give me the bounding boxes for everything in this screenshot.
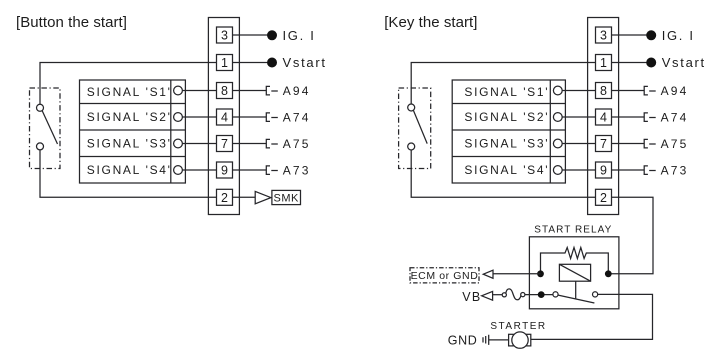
signal block row dividers (right) [452, 104, 565, 157]
wire pin 1 to Vstart node (left) [233, 62, 268, 64]
connector stub A74 (left) [266, 113, 278, 122]
svg-text:SMK: SMK [274, 193, 300, 205]
switch SW1 top terminal (left) [37, 104, 44, 111]
wire pin 9 to A73 (right) [612, 169, 645, 171]
svg-text:[Button the start]: [Button the start] [16, 14, 127, 31]
signal S3 output terminal (left) [174, 139, 183, 148]
svg-text:SIGNAL 'S2': SIGNAL 'S2' [87, 110, 172, 124]
svg-text:[Key the start]: [Key the start] [384, 14, 477, 31]
signal block row dividers (left) [80, 104, 186, 157]
node Vstart (right) [646, 58, 656, 68]
svg-text:1: 1 [221, 56, 228, 70]
connector stub A73 (left) [266, 166, 278, 175]
svg-text:4: 4 [600, 111, 607, 125]
svg-text:3: 3 [600, 29, 607, 43]
relay junction dot right [605, 270, 612, 277]
relay coil box [559, 264, 590, 281]
connector stub A94 (right) [644, 86, 656, 95]
start relay box [529, 237, 619, 309]
svg-text:IG. I: IG. I [662, 28, 695, 43]
switch SW2 blade (right, open) [413, 110, 427, 143]
wire pin1 row to switch top (right) [411, 63, 595, 105]
wire pin 2 to SMK buffer (left) [233, 196, 256, 198]
wire starter to ground [489, 339, 509, 341]
svg-text:A94: A94 [661, 84, 689, 98]
svg-text:9: 9 [221, 164, 228, 178]
wire VB arrow to fuse [493, 294, 503, 296]
pin 2 box (left) [217, 189, 233, 205]
relay switch right contact [593, 292, 598, 297]
svg-text:9: 9 [600, 164, 607, 178]
pin 2 box (right) [596, 189, 612, 205]
svg-text:A74: A74 [661, 110, 689, 124]
wire fuse to relay switch [525, 294, 553, 296]
wire pin 7 to A75 (left) [233, 143, 267, 145]
signal S2 output terminal (right) [553, 113, 562, 122]
wire pin1 row to switch top (left) [40, 63, 217, 105]
signal S4 output terminal (right) [553, 166, 562, 175]
signal block outline (left) [80, 80, 186, 183]
pin 1 box (left) [217, 55, 233, 71]
wire S2 to pin 4 (right) [562, 116, 595, 118]
pin 7 box (right) [596, 136, 612, 152]
svg-text:3: 3 [221, 29, 228, 43]
relay junction dot left [537, 270, 544, 277]
signal S4 output terminal (left) [174, 166, 183, 175]
starter motor left brush [509, 334, 514, 346]
svg-text:SIGNAL 'S3': SIGNAL 'S3' [87, 137, 172, 151]
svg-text:IG. I: IG. I [283, 28, 316, 43]
buffer triangle to SMK (left) [255, 191, 271, 203]
signal S2 output terminal (left) [174, 113, 183, 122]
fuse terminal right [521, 293, 525, 297]
svg-text:SIGNAL 'S1': SIGNAL 'S1' [87, 85, 172, 99]
svg-text:ECM or GND: ECM or GND [411, 270, 479, 282]
pin 9 box (right) [596, 162, 612, 178]
wire S1 to pin 8 (right) [562, 90, 595, 92]
starter motor right brush [527, 334, 531, 346]
wire switch bottom to pin2 row (right) [411, 150, 595, 197]
svg-text:2: 2 [600, 191, 607, 205]
switch SW2 bottom terminal (right) [408, 143, 415, 150]
signal block terminal column divider (right) [549, 80, 551, 183]
svg-text:A73: A73 [283, 163, 311, 177]
svg-text:GND: GND [448, 334, 478, 348]
pin 3 box (right) [596, 27, 612, 43]
wire pin 4 to A74 (right) [612, 116, 645, 118]
wire pin 8 to A94 (right) [612, 90, 645, 92]
wire pin 4 to A74 (left) [233, 116, 267, 118]
relay coil resistor with leads [541, 248, 609, 274]
wire S3 to pin 7 (right) [562, 143, 595, 145]
arrow to VB [482, 291, 493, 300]
connector stub A94 (left) [266, 86, 278, 95]
wire relay switch to starter [531, 294, 653, 339]
connector housing (left) [208, 18, 239, 215]
signal block outline (right) [452, 80, 565, 183]
signal S1 output terminal (left) [174, 86, 183, 95]
svg-text:A75: A75 [283, 137, 311, 151]
svg-text:2: 2 [221, 191, 228, 205]
switch SW2 top terminal (right) [408, 104, 415, 111]
wire S1 to pin 8 (left) [182, 90, 216, 92]
svg-text:7: 7 [600, 137, 607, 151]
svg-text:SIGNAL 'S3': SIGNAL 'S3' [464, 137, 549, 151]
connector stub A75 (left) [266, 139, 278, 148]
fuse element [506, 289, 521, 300]
svg-text:A75: A75 [661, 137, 689, 151]
relay switch left contact [553, 292, 558, 297]
signal S3 output terminal (right) [553, 139, 562, 148]
switch SW1 blade (left, open) [42, 111, 57, 144]
pin 1 box (right) [596, 55, 612, 71]
wire S4 to pin 9 (right) [562, 169, 595, 171]
svg-text:STARTER: STARTER [490, 321, 546, 332]
svg-text:SIGNAL 'S2': SIGNAL 'S2' [464, 110, 549, 124]
wire pin 7 to A75 (right) [612, 143, 645, 145]
connector stub A73 (right) [644, 166, 656, 175]
wire pin 8 to A94 (left) [233, 90, 267, 92]
wire pin 9 to A73 (left) [233, 169, 267, 171]
switch SW1 dash-dot enclosure (left) [30, 88, 61, 169]
signal S1 output terminal (right) [553, 86, 562, 95]
relay switch junction dot [538, 291, 545, 298]
wire relay coil to ECM or GND [493, 273, 541, 275]
relay coil box diagonal [559, 264, 590, 281]
wire switch bottom to pin2 row (left) [40, 150, 217, 197]
svg-text:A73: A73 [661, 163, 689, 177]
connector stub A75 (right) [644, 139, 656, 148]
switch SW2 dash-dot enclosure (right) [399, 88, 431, 169]
wire S2 to pin 4 (left) [182, 116, 216, 118]
node IG. I (right) [646, 30, 656, 40]
switch SW1 bottom terminal (left) [37, 143, 44, 150]
pin 8 box (left) [217, 83, 233, 99]
svg-text:4: 4 [221, 111, 228, 125]
svg-text:SIGNAL 'S1': SIGNAL 'S1' [464, 85, 549, 99]
svg-text:A74: A74 [283, 110, 311, 124]
wire pin 1 to Vstart node (right) [612, 62, 647, 64]
wire pin 2 down to start relay coil (right) [609, 197, 653, 273]
pin 3 box (left) [217, 27, 233, 43]
node Vstart (left) [267, 58, 277, 68]
svg-text:VB: VB [462, 290, 481, 304]
ground symbol [483, 335, 489, 345]
svg-text:A94: A94 [283, 84, 311, 98]
SMK box (left) [272, 190, 301, 204]
svg-text:8: 8 [600, 84, 607, 98]
svg-text:SIGNAL 'S4': SIGNAL 'S4' [464, 163, 549, 177]
signal block terminal column divider (left) [170, 80, 172, 183]
ECM or GND dash-dot box [410, 268, 479, 283]
pin 8 box (right) [596, 83, 612, 99]
pin 4 box (left) [217, 109, 233, 125]
fuse terminal left [502, 293, 506, 297]
wire S3 to pin 7 (left) [182, 143, 216, 145]
pin 7 box (left) [217, 136, 233, 152]
wire S4 to pin 9 (left) [182, 169, 216, 171]
pin 9 box (left) [217, 162, 233, 178]
svg-text:SIGNAL 'S4': SIGNAL 'S4' [87, 163, 172, 177]
svg-text:Vstart: Vstart [283, 55, 327, 70]
svg-text:Vstart: Vstart [662, 55, 706, 70]
svg-text:1: 1 [600, 56, 607, 70]
svg-text:START RELAY: START RELAY [534, 225, 612, 236]
svg-text:7: 7 [221, 137, 228, 151]
svg-text:8: 8 [221, 84, 228, 98]
wire pin 3 to IG. I node (left) [233, 34, 268, 36]
arrow to ECM or GND [483, 270, 493, 278]
pin 4 box (right) [596, 109, 612, 125]
node IG. I (left) [267, 30, 277, 40]
connector stub A74 (right) [644, 113, 656, 122]
wire pin 3 to IG. I node (right) [612, 34, 647, 36]
relay switch blade [558, 295, 594, 303]
connector housing (right) [588, 18, 619, 215]
relay actuator link [575, 281, 577, 299]
starter motor body [512, 332, 528, 348]
